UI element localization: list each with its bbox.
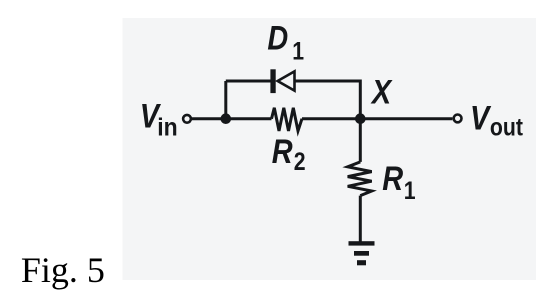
svg-text:2: 2 (294, 148, 306, 176)
svg-text:R: R (382, 159, 403, 198)
svg-text:R: R (272, 132, 293, 171)
svg-text:V: V (470, 98, 492, 137)
svg-text:1: 1 (292, 37, 304, 65)
svg-text:in: in (157, 114, 177, 142)
svg-text:D: D (267, 18, 288, 57)
svg-text:Fig. 5: Fig. 5 (21, 250, 105, 290)
svg-text:1: 1 (404, 177, 416, 205)
svg-text:X: X (370, 72, 393, 111)
svg-text:out: out (490, 113, 523, 141)
